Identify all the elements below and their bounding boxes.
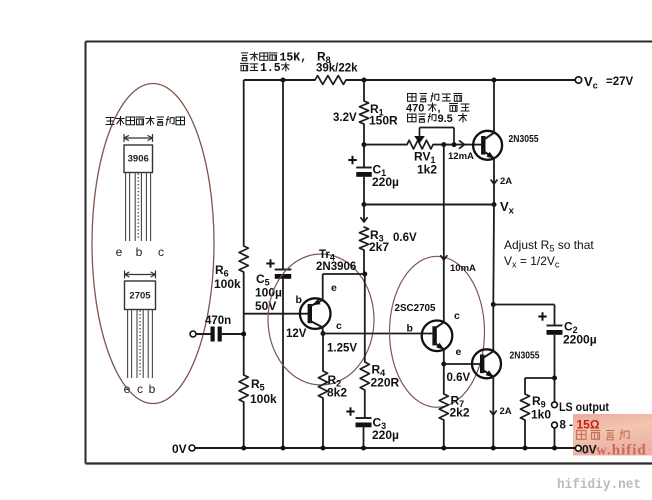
svg-text:39k/22k: 39k/22k <box>316 63 358 75</box>
svg-text:3.2V: 3.2V <box>333 112 357 124</box>
svg-text:2k2: 2k2 <box>450 406 470 420</box>
svg-text:2N3906: 2N3906 <box>316 261 356 273</box>
transistor Q6 2N3055 lower <box>472 349 540 378</box>
resistor R3 <box>359 227 417 254</box>
wire driver collector up to RV1 node <box>443 145 445 323</box>
resistor R1 <box>333 101 398 128</box>
svg-text:8k2: 8k2 <box>327 386 347 400</box>
annotation ellipse around driver <box>390 256 485 407</box>
svg-text:1k0: 1k0 <box>531 408 551 422</box>
wire C5 branch upper <box>282 80 284 270</box>
node R3/Tr4 emitter/R4 <box>362 272 367 277</box>
wire Tr4 emitter lead <box>323 274 365 300</box>
svg-text:c: c <box>336 320 342 332</box>
arrow 2A lower <box>490 406 511 417</box>
svg-text:LS output: LS output <box>559 400 609 414</box>
svg-text:15Ω: 15Ω <box>577 418 600 432</box>
resistor R9 <box>520 394 551 422</box>
svg-text:e: e <box>331 282 337 294</box>
svg-text:2N3055: 2N3055 <box>510 350 540 362</box>
wire left rail middle <box>243 272 245 375</box>
svg-text:2A: 2A <box>500 406 512 417</box>
resistor R5 <box>239 375 277 406</box>
svg-text:2k7: 2k7 <box>369 240 389 254</box>
svg-text:c: c <box>137 382 143 396</box>
svg-text:220R: 220R <box>371 376 400 390</box>
svg-text:9.5: 9.5 <box>438 113 453 125</box>
node R1/RV1/C1 <box>362 142 367 147</box>
potentiometer RV1 1k2 <box>407 128 454 177</box>
wire Q6 emitter down <box>492 377 494 448</box>
svg-text:220µ: 220µ <box>372 428 399 442</box>
svg-text:hifidiy.net: hifidiy.net <box>557 478 641 493</box>
svg-text:8 -: 8 - <box>560 420 574 432</box>
svg-text:2SC2705: 2SC2705 <box>395 302 436 314</box>
wire Q5 collector to rail <box>493 80 495 133</box>
node RV1 wiper tie <box>452 142 457 147</box>
border frame <box>86 42 652 464</box>
svg-text:c: c <box>158 245 164 259</box>
svg-text:0V: 0V <box>582 443 597 457</box>
wire R4 to C3 <box>364 390 366 418</box>
transistor package drawing Q-2705 <box>124 271 156 397</box>
arrow 10mA <box>441 256 476 274</box>
svg-text:1k2: 1k2 <box>417 163 437 177</box>
arrow 12mA into base <box>448 141 474 162</box>
capacitor C2 <box>538 312 596 346</box>
node top rail / C5 branch <box>281 78 286 83</box>
node rail Q6 emitter <box>491 446 496 451</box>
wire C2 tap to Q6 collector <box>492 305 494 351</box>
arrow current into R3 <box>361 205 367 223</box>
wire C5 branch lower <box>282 279 284 448</box>
svg-text:0.6V: 0.6V <box>393 232 417 244</box>
svg-text:e: e <box>116 245 123 259</box>
wire Q5 emitter to Vx <box>493 158 495 204</box>
wire C1 top lead <box>363 145 365 167</box>
note: actually use 15K (CJK) <box>240 52 307 76</box>
wire top supply rail <box>244 79 315 81</box>
annotation ellipse around transistor packages <box>92 84 214 404</box>
svg-text:150R: 150R <box>369 114 398 128</box>
node C2 tap <box>491 302 496 307</box>
svg-text:2200µ: 2200µ <box>563 333 597 347</box>
svg-text:12mA: 12mA <box>448 151 474 162</box>
wire top rail right of R8 <box>346 79 575 81</box>
wire driver emitter lead <box>443 349 445 364</box>
svg-text:e: e <box>124 382 131 396</box>
wire Tr4 base <box>244 313 309 315</box>
wire bottom rail <box>195 447 576 449</box>
wire R9 top tap <box>525 378 555 394</box>
wire R3 bottom lead <box>363 250 365 274</box>
svg-text:15K,: 15K, <box>280 52 308 65</box>
terminal 0V left <box>172 442 195 456</box>
wire R1 top lead <box>363 80 365 101</box>
note: Adjust R5 so that Vx=1/2Vc <box>504 238 594 270</box>
svg-text:100k: 100k <box>250 392 277 406</box>
arrow 2A upper <box>491 176 512 187</box>
wire R2 top lead <box>322 334 324 372</box>
svg-text:Adjust R5 so that: Adjust R5 so that <box>504 238 594 254</box>
svg-text:50V: 50V <box>255 299 276 313</box>
terminal LS+ <box>552 400 609 414</box>
svg-text:w.hifid: w.hifid <box>596 443 647 459</box>
node rail LS- <box>552 446 557 451</box>
wire Vx down to C2 tap <box>492 205 495 305</box>
node rail R5 <box>241 446 246 451</box>
capacitor C3 <box>346 407 399 442</box>
terminal LS- <box>552 420 573 432</box>
wire R9 bottom lead <box>524 420 526 448</box>
node rail R7 <box>441 446 446 451</box>
wire Q5 base lead <box>470 144 482 146</box>
node rail C3 <box>361 446 366 451</box>
resistor R6 <box>214 246 248 291</box>
node top rail / R1 branch <box>362 78 367 83</box>
svg-text:b: b <box>149 382 156 396</box>
node C2/R9/LS <box>552 376 557 381</box>
wire C2 bottom lead <box>554 335 556 378</box>
wire Q6 base lead <box>444 363 481 365</box>
svg-text:c: c <box>454 310 460 322</box>
node top rail / Q5 collector <box>492 78 497 83</box>
svg-text:b: b <box>296 294 302 306</box>
svg-text:=27V: =27V <box>606 76 634 88</box>
svg-text:470n: 470n <box>205 315 231 327</box>
wire Tr4 collector to driver base <box>323 333 430 335</box>
wire C1 bottom lead <box>363 177 365 205</box>
node Tr4 collector <box>321 331 326 336</box>
terminal Vc <box>575 74 633 92</box>
watermark CJK red <box>577 430 630 441</box>
svg-text:100µ: 100µ <box>255 286 282 300</box>
svg-text:470: 470 <box>406 103 424 115</box>
svg-text:12V: 12V <box>286 328 307 340</box>
wire left rail lower <box>243 402 245 448</box>
svg-text:1.25V: 1.25V <box>327 343 357 355</box>
svg-text:0V: 0V <box>172 442 187 456</box>
svg-text:b: b <box>407 323 413 335</box>
node Vx-line left <box>362 202 367 207</box>
wire R2 bottom lead <box>322 398 324 448</box>
node RV1/driver collector <box>441 142 446 147</box>
annotation ellipse around Tr4 <box>268 254 374 385</box>
transistor Q3 2SC2705 <box>395 302 462 358</box>
svg-text:e: e <box>456 346 462 358</box>
wire left rail upper <box>243 80 245 246</box>
note: final adjustment 470 ohm (CJK) <box>406 93 470 126</box>
transistor package drawing Q-3906 <box>116 134 164 259</box>
svg-text:3906: 3906 <box>128 154 149 165</box>
wire R7 bottom lead <box>443 420 445 448</box>
svg-text:10mA: 10mA <box>450 263 476 274</box>
node rail R9 <box>523 446 528 451</box>
svg-text:220µ: 220µ <box>372 175 399 189</box>
terminal 0V right <box>575 443 596 457</box>
node Vx <box>492 199 515 217</box>
wire RV1 left lead <box>364 144 407 146</box>
node rail R2 <box>321 446 326 451</box>
wire C3 bottom lead <box>363 427 365 448</box>
capacitor C1 <box>348 156 399 189</box>
note: transistors face yourself (CJK) <box>106 116 185 126</box>
wire Vx horizontal <box>364 204 494 206</box>
wire R7 top lead <box>443 364 445 394</box>
resistor R7 <box>439 394 470 421</box>
capacitor C5 <box>255 259 291 313</box>
capacitor C-in 470n <box>190 315 244 342</box>
transistor Tr4 2N3906 <box>286 249 356 340</box>
transistor Q5 2N3055 upper <box>473 131 539 160</box>
wire RV1 to Q5 base <box>433 144 470 146</box>
svg-text:2705: 2705 <box>129 291 151 302</box>
wire R4 top lead <box>364 274 366 362</box>
node driver emitter <box>441 362 446 367</box>
svg-text:2N3055: 2N3055 <box>509 133 539 145</box>
svg-text:0.6V: 0.6V <box>447 372 471 384</box>
node input junction <box>241 332 246 337</box>
node rail C5 <box>281 446 286 451</box>
svg-text:2A: 2A <box>500 176 512 187</box>
wire Tr4 collector lead <box>322 327 324 333</box>
wire R1 bottom lead <box>363 124 365 145</box>
wire LS- stub to rail <box>554 428 556 448</box>
wire LS upper stub <box>554 378 556 402</box>
svg-text:b: b <box>136 245 143 259</box>
svg-text:1.5: 1.5 <box>260 62 281 75</box>
resistor R4 <box>360 362 399 390</box>
svg-text:100k: 100k <box>214 277 241 291</box>
resistor R2 <box>318 371 347 400</box>
wire C2 top tap <box>493 305 554 326</box>
resistor R8 <box>315 50 358 85</box>
